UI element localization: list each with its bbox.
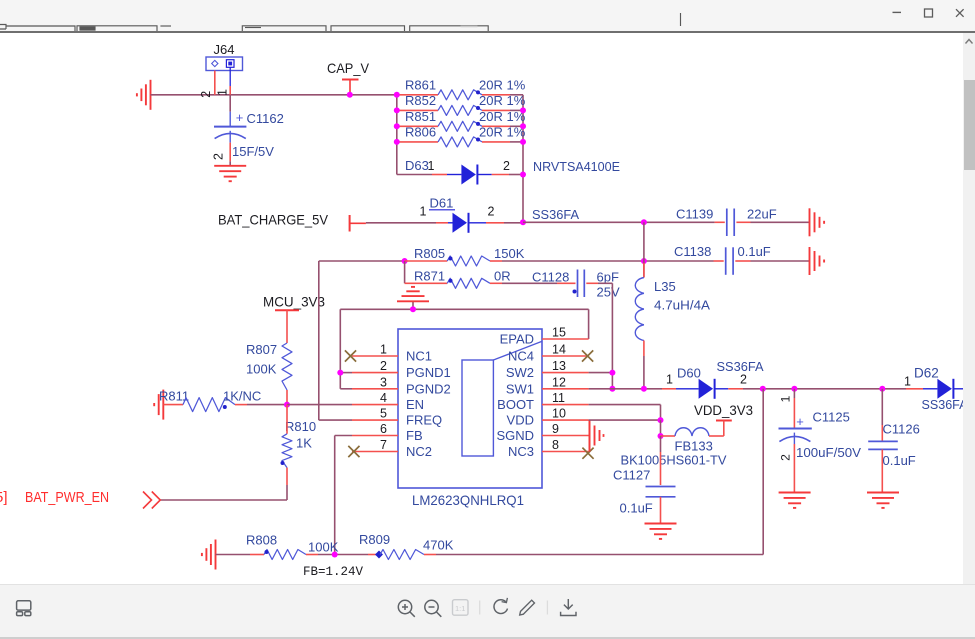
svg-text:2: 2 <box>740 373 747 387</box>
diode D62 <box>904 366 968 413</box>
svg-text:0.1uF: 0.1uF <box>883 453 916 468</box>
wire <box>247 404 287 406</box>
pin 8 NC3 of U1 <box>508 438 589 459</box>
svg-text:EN: EN <box>406 397 424 412</box>
wire right bus <box>522 95 524 223</box>
minimize button <box>893 11 902 13</box>
svg-text:14: 14 <box>552 343 566 357</box>
svg-text:2: 2 <box>199 91 213 98</box>
ground <box>645 523 677 525</box>
junction <box>394 139 400 145</box>
wire <box>589 419 661 421</box>
junction <box>284 402 290 408</box>
svg-text:4: 4 <box>380 391 387 405</box>
bottom toolbar <box>0 584 975 638</box>
svg-text:+: + <box>236 110 244 125</box>
junction <box>760 386 766 392</box>
svg-text:1:1: 1:1 <box>455 604 465 613</box>
svg-text:8: 8 <box>552 438 559 452</box>
svg-text:20R 1%: 20R 1% <box>479 109 526 124</box>
junction <box>520 139 526 145</box>
junction <box>410 306 416 312</box>
ground <box>229 161 231 166</box>
wire <box>598 282 612 284</box>
svg-text:SW1: SW1 <box>506 381 534 396</box>
svg-text:2: 2 <box>488 205 495 219</box>
op-amp U1 LM2623QNHLRQ1 <box>398 329 542 508</box>
svg-text:12: 12 <box>552 375 566 389</box>
svg-text:VDD_3V3: VDD_3V3 <box>694 402 753 418</box>
wire <box>339 309 341 389</box>
capacitor C1127 <box>613 436 676 523</box>
inductor L35 <box>635 222 710 388</box>
capacitor C1162 <box>212 95 284 162</box>
svg-text:9: 9 <box>552 422 559 436</box>
ground <box>589 422 591 450</box>
resistor R809 <box>359 532 454 560</box>
svg-text:CAP_V: CAP_V <box>327 60 370 76</box>
svg-text:D60: D60 <box>677 366 701 381</box>
wire <box>589 372 613 374</box>
svg-text:NC2: NC2 <box>406 444 432 459</box>
wire <box>502 260 714 262</box>
wire <box>404 261 406 283</box>
svg-text:C1125: C1125 <box>813 410 850 425</box>
separator <box>546 601 548 615</box>
svg-text:R806: R806 <box>405 124 436 139</box>
rotate <box>494 600 508 614</box>
wire <box>589 404 661 406</box>
junction <box>879 386 885 392</box>
resistor R851 <box>397 109 526 132</box>
pin 5 FREQ of U1 <box>352 407 442 428</box>
download <box>561 599 576 616</box>
svg-text:15F/5V: 15F/5V <box>232 144 274 159</box>
wire <box>340 308 588 310</box>
ground <box>150 80 152 110</box>
wire <box>660 420 662 436</box>
pin 12 SW1 of U1 <box>506 375 589 396</box>
svg-text:PGND2: PGND2 <box>406 381 451 396</box>
svg-text:0.1uF: 0.1uF <box>738 244 771 259</box>
svg-text:L35: L35 <box>654 279 676 294</box>
svg-text:20R 1%: 20R 1% <box>479 93 526 108</box>
no-connect pin 14 <box>582 350 593 361</box>
svg-text:25V: 25V <box>597 285 620 300</box>
junction <box>658 417 664 423</box>
junction <box>609 370 615 376</box>
svg-text:C1139: C1139 <box>676 207 713 222</box>
pin 2 of J64 <box>214 71 216 95</box>
wire <box>286 485 288 500</box>
resistor R811 <box>159 389 261 412</box>
svg-text:NRVTSA4100E: NRVTSA4100E <box>533 159 620 174</box>
svg-text:D63: D63 <box>405 158 429 173</box>
svg-text:NC3: NC3 <box>508 444 534 459</box>
svg-text:BAT_PWR_EN: BAT_PWR_EN <box>25 489 109 506</box>
svg-text:C1127: C1127 <box>613 468 650 483</box>
junction <box>658 433 664 439</box>
svg-text:C1162: C1162 <box>247 111 284 126</box>
maximize button <box>925 9 933 17</box>
junction <box>520 107 526 113</box>
wire <box>588 309 590 339</box>
junction <box>609 386 615 392</box>
svg-text:J64: J64 <box>214 42 235 57</box>
svg-text:2: 2 <box>779 454 793 461</box>
wire <box>318 554 368 556</box>
svg-text:11: 11 <box>552 391 565 405</box>
svg-text:VDD: VDD <box>507 413 534 428</box>
diode D61 <box>366 196 523 233</box>
zoom out <box>425 600 438 613</box>
svg-text:150K: 150K <box>494 246 525 261</box>
svg-text:100K: 100K <box>246 362 277 377</box>
svg-text:4.7uH/4A: 4.7uH/4A <box>654 298 710 313</box>
junction <box>402 258 408 264</box>
wire <box>318 261 320 420</box>
svg-text:SS36FA: SS36FA <box>922 397 968 412</box>
power symbol CAP_V <box>327 60 370 92</box>
svg-text:5: 5 <box>380 407 387 421</box>
svg-text:FB133: FB133 <box>675 439 713 454</box>
window border line <box>0 31 975 33</box>
pin 11 BOOT of U1 <box>497 391 588 412</box>
pin 9 SGND of U1 <box>496 422 588 443</box>
junction <box>394 92 400 98</box>
wire <box>340 388 352 390</box>
svg-text:20R 1%: 20R 1% <box>479 77 526 92</box>
wire <box>335 435 352 437</box>
junction <box>337 370 343 376</box>
junction <box>520 123 526 129</box>
pin 6 FB of U1 <box>352 422 423 443</box>
svg-text:+: + <box>796 414 804 429</box>
svg-text:EPAD: EPAD <box>500 332 534 347</box>
junction <box>394 107 400 113</box>
svg-text:1K: 1K <box>296 436 312 451</box>
resistor R810 <box>281 405 317 485</box>
ground <box>867 492 899 494</box>
svg-text:2: 2 <box>212 153 226 160</box>
svg-text:D62: D62 <box>914 366 939 381</box>
svg-text:22uF: 22uF <box>747 207 777 222</box>
svg-text:1: 1 <box>779 395 793 402</box>
no-connect pin 8 <box>582 448 593 459</box>
svg-text:PGND1: PGND1 <box>406 365 451 380</box>
pin 7 NC2 of U1 <box>352 438 432 459</box>
svg-text:MCU_3V3: MCU_3V3 <box>263 294 325 310</box>
svg-text:13: 13 <box>552 359 566 373</box>
resistor R852 <box>397 93 526 116</box>
zoom in <box>398 600 411 613</box>
power symbol VDD_3V3 <box>694 402 753 436</box>
svg-text:R809: R809 <box>359 532 390 547</box>
connector J64 <box>206 42 243 71</box>
svg-text:C1138: C1138 <box>674 244 711 259</box>
svg-text:1: 1 <box>666 373 673 387</box>
junction <box>641 219 647 225</box>
svg-text:7: 7 <box>380 438 387 452</box>
junction <box>791 386 797 392</box>
svg-text:2: 2 <box>503 159 510 173</box>
no-connect pin 7 <box>348 446 359 457</box>
resistor R861 <box>397 77 526 100</box>
gallery icon <box>17 601 31 610</box>
power symbol MCU_3V3 <box>263 294 325 344</box>
wire <box>340 372 352 374</box>
junction <box>347 92 353 98</box>
capacitor C1138 <box>674 244 810 275</box>
svg-text:R852: R852 <box>405 93 436 108</box>
svg-text:BOOT: BOOT <box>497 397 534 412</box>
junction <box>520 219 526 225</box>
ground <box>779 492 811 494</box>
ground <box>162 390 164 420</box>
svg-text:100uF/50V: 100uF/50V <box>796 445 861 460</box>
pin 3 PGND2 of U1 <box>352 375 451 396</box>
junction <box>641 386 647 392</box>
svg-text:1: 1 <box>380 343 387 357</box>
title bar <box>0 0 975 31</box>
ground <box>809 208 811 236</box>
svg-text:NC4: NC4 <box>508 349 534 364</box>
svg-text:6: 6 <box>380 422 387 436</box>
resistor R871 <box>405 269 511 289</box>
svg-text:LM2623QNHLRQ1: LM2623QNHLRQ1 <box>412 492 524 508</box>
wire <box>436 554 763 556</box>
resistor R808 <box>246 533 339 560</box>
svg-text:1: 1 <box>428 159 435 173</box>
close button <box>956 9 964 17</box>
wire left bus <box>396 95 398 175</box>
pin 15 EPAD of U1 <box>500 326 589 347</box>
svg-text:FB=1.24V: FB=1.24V <box>303 565 364 579</box>
resistor R807 <box>246 342 292 405</box>
svg-text:SW2: SW2 <box>506 365 534 380</box>
pin 14 NC4 of U1 <box>508 343 589 364</box>
wire <box>216 554 251 556</box>
bottom window edge <box>0 637 975 639</box>
junction <box>394 123 400 129</box>
ground <box>412 301 414 309</box>
ground <box>215 540 217 570</box>
junction <box>332 552 338 558</box>
svg-text:C1126: C1126 <box>883 422 920 437</box>
capacitor C1125 <box>779 389 862 492</box>
svg-text:2: 2 <box>380 359 387 373</box>
capacitor C1126 <box>868 389 920 492</box>
junction <box>520 172 526 178</box>
pin 2 PGND1 of U1 <box>352 359 451 380</box>
ground <box>809 247 811 275</box>
capacitor C1139 <box>676 207 810 237</box>
svg-text:0.1uF: 0.1uF <box>620 501 653 516</box>
pencil <box>520 600 535 615</box>
svg-text:470K: 470K <box>423 538 454 553</box>
junction <box>641 258 647 264</box>
svg-text:SGND: SGND <box>496 428 534 443</box>
svg-text:R805: R805 <box>414 246 445 261</box>
pin 1 NC1 of U1 <box>352 343 432 364</box>
svg-text:D61: D61 <box>430 196 454 211</box>
svg-text:C1128: C1128 <box>532 270 569 285</box>
wire <box>523 221 715 223</box>
resistor R806 <box>397 124 526 147</box>
capacitor C1128 <box>502 270 620 300</box>
1:1 disabled <box>453 600 469 616</box>
svg-text:5]: 5] <box>0 489 8 506</box>
no-connect pin 1 <box>345 350 356 361</box>
svg-text:BK1005HS601-TV: BK1005HS601-TV <box>621 453 727 468</box>
wire <box>589 388 662 390</box>
diode D631 <box>397 158 621 185</box>
svg-text:15: 15 <box>552 326 566 340</box>
pin 10 VDD of U1 <box>507 407 589 428</box>
svg-text:1K/NC: 1K/NC <box>223 389 261 404</box>
svg-text:0R: 0R <box>494 269 511 284</box>
ferrite bead FB133 <box>621 428 727 468</box>
wire <box>287 404 352 406</box>
scrollbar <box>963 33 975 584</box>
svg-text:R807: R807 <box>246 342 277 357</box>
svg-text:R810: R810 <box>285 419 316 434</box>
svg-text:20R 1%: 20R 1% <box>479 124 526 139</box>
svg-text:1: 1 <box>216 89 230 96</box>
pin 1 of J64 <box>229 67 231 86</box>
svg-text:SS36FA: SS36FA <box>532 207 579 222</box>
svg-text:FB: FB <box>406 428 423 443</box>
wire <box>151 94 397 96</box>
svg-text:R808: R808 <box>246 533 277 548</box>
pin 13 SW2 of U1 <box>506 359 589 380</box>
svg-text:10: 10 <box>552 407 566 421</box>
svg-text:3: 3 <box>380 375 387 389</box>
svg-text:R851: R851 <box>405 109 436 124</box>
svg-text:BAT_CHARGE_5V: BAT_CHARGE_5V <box>218 212 329 228</box>
port BAT_CHARGE_5V <box>218 212 366 232</box>
port BAT_PWR_EN <box>0 489 160 509</box>
svg-text:R861: R861 <box>405 77 436 92</box>
svg-text:FREQ: FREQ <box>406 413 442 428</box>
svg-text:R871: R871 <box>414 269 445 284</box>
svg-text:SS36FA: SS36FA <box>717 359 764 374</box>
pin 4 EN of U1 <box>352 391 424 412</box>
svg-text:1: 1 <box>904 375 911 389</box>
diode D60 <box>662 359 764 399</box>
svg-text:6pF: 6pF <box>597 270 619 285</box>
svg-text:NC1: NC1 <box>406 349 432 364</box>
resistor R805 <box>405 246 525 266</box>
wire <box>743 388 906 390</box>
wire <box>319 260 405 262</box>
svg-text:1: 1 <box>420 205 427 219</box>
